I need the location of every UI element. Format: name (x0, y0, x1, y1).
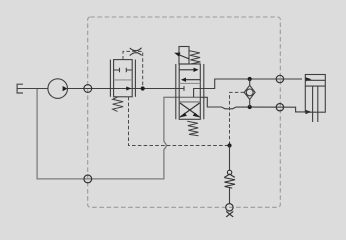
node: return port on boundary (84, 175, 92, 183)
node: cylinder port A on boundary (276, 75, 283, 82)
pump P1 (48, 79, 68, 99)
V2 proportional solenoid arrow (178, 54, 189, 59)
node: cylinder port B on boundary (276, 104, 283, 111)
V1 open position flow arrow (126, 86, 131, 90)
junction pilot/P (141, 86, 145, 90)
V1 closed position blocked port right (126, 68, 132, 73)
drain line V1 to drain gallery (dashed) (129, 97, 228, 146)
junction lower check branch (248, 105, 252, 109)
cylinder feed arrow lower (306, 110, 312, 114)
node: supply port on boundary (84, 85, 92, 93)
V2 neutral A to T link (194, 89, 201, 98)
check valve C1 poppet circle (246, 89, 253, 96)
node: drain port on boundary (226, 204, 233, 211)
wire pump to main valve (P line) (68, 88, 185, 90)
pilot line V1 top to throttle (dashed) (123, 51, 143, 87)
V1 spring (113, 97, 124, 112)
drain wire to boundary node (229, 188, 231, 204)
V2 crossed arrowheads (180, 113, 187, 118)
V2 divider 2 (179, 101, 200, 103)
check valve C1 diamond (244, 85, 255, 99)
wire tank to pump (17, 88, 48, 90)
V2 divider 1 (179, 82, 200, 84)
preload spring (224, 178, 235, 189)
V2 crossed position diagonals (180, 103, 200, 117)
V2 solenoid box (179, 47, 189, 65)
tank T1 (17, 84, 23, 93)
check valve pilot line (dashed) (230, 92, 245, 144)
drain branch wire (229, 146, 231, 171)
V2 position1 arrow left (185, 79, 200, 81)
V1 closed position blocked port left (114, 68, 120, 73)
junction upper check branch (248, 77, 252, 81)
cylinder A1 barrel (305, 75, 325, 113)
plugged port X (226, 211, 233, 217)
pressure reducing valve V1 body (114, 60, 133, 97)
pump flow arrow (63, 86, 68, 91)
cylinder rod (312, 86, 314, 122)
V2 top spring (189, 51, 200, 64)
wire B port to lower line with crossover dip (200, 97, 305, 112)
V1 position divider (114, 79, 133, 81)
V2 bottom spring (187, 121, 198, 136)
main valve V2 proportional side rails (175, 64, 177, 119)
pressure reducing valve V1 proportional side rails (109, 60, 111, 97)
cylinder piston (305, 79, 325, 81)
V2 neutral blocked P tick (183, 86, 185, 91)
wire return riser (gray) (37, 89, 200, 179)
main valve V2 body (179, 64, 200, 119)
throttle orifice D1 (130, 48, 142, 56)
system boundary dashed enclosure (88, 17, 281, 207)
junction drain gallery (227, 143, 231, 147)
V2 position1 arrow right (179, 69, 194, 71)
check valve branch wire (249, 79, 251, 85)
wire A port to cylinder line (200, 79, 302, 89)
preload check ball (227, 170, 231, 174)
preload check seat (224, 174, 234, 177)
cylinder feed arrow upper (306, 77, 312, 81)
